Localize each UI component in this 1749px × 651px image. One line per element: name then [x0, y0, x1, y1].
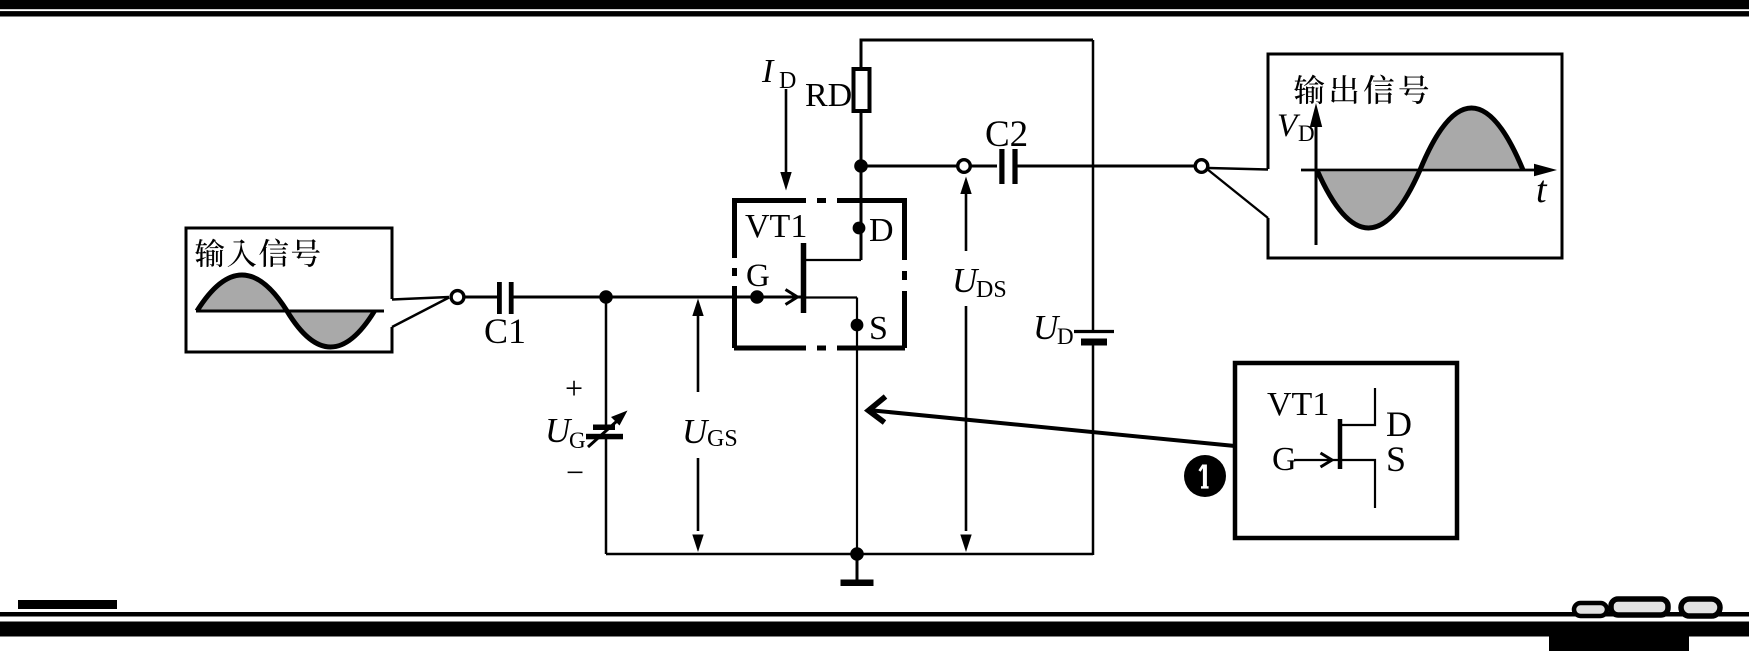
svg-text:GS: GS: [707, 426, 738, 452]
svg-text:t: t: [1536, 169, 1548, 211]
svg-text:G: G: [746, 258, 770, 294]
svg-text:C1: C1: [484, 311, 526, 351]
svg-text:D: D: [1298, 121, 1315, 146]
svg-text:G: G: [1272, 441, 1297, 478]
svg-text:S: S: [1386, 439, 1406, 479]
svg-text:D: D: [779, 68, 796, 94]
svg-text:RD: RD: [805, 77, 852, 114]
svg-text:C2: C2: [985, 114, 1028, 155]
svg-text:D: D: [1386, 404, 1412, 444]
svg-text:U: U: [682, 412, 710, 451]
svg-text:I: I: [761, 53, 775, 90]
svg-text:VT1: VT1: [1267, 386, 1329, 423]
svg-text:−: −: [566, 454, 584, 490]
svg-text:G: G: [569, 428, 586, 453]
svg-text:+: +: [565, 370, 583, 406]
svg-text:S: S: [869, 310, 888, 347]
svg-text:D: D: [869, 212, 894, 249]
svg-text:VT1: VT1: [745, 208, 807, 245]
svg-text:D: D: [1057, 324, 1074, 349]
svg-text:DS: DS: [976, 277, 1007, 303]
